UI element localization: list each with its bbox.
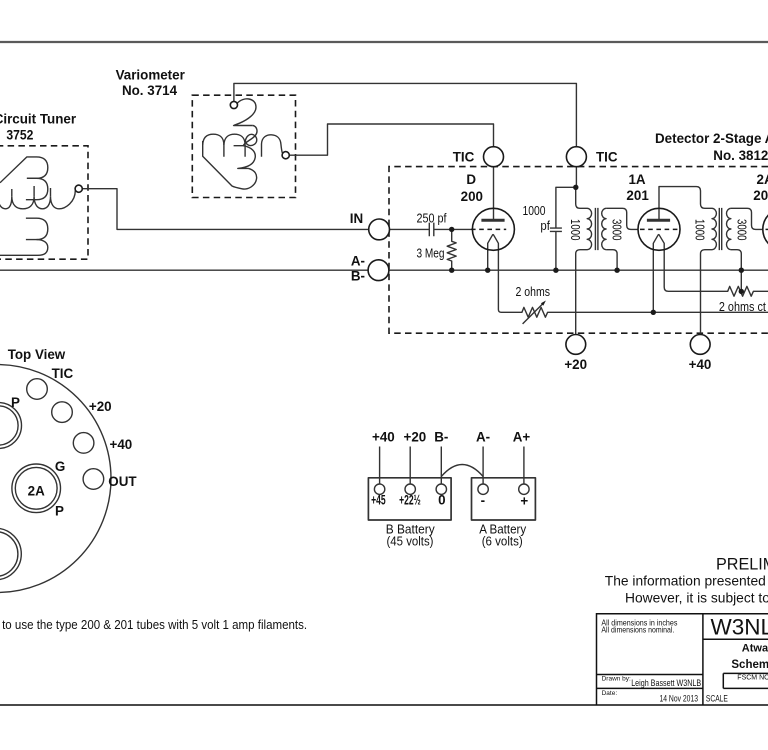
svg-text:+: +: [520, 494, 528, 509]
svg-text:Drawn by:: Drawn by:: [602, 676, 631, 683]
svg-text:pf: pf: [540, 218, 550, 233]
svg-text:201: 201: [626, 188, 649, 203]
svg-text:1000: 1000: [523, 203, 546, 218]
svg-text:+20: +20: [404, 429, 427, 444]
svg-text:A-: A-: [351, 253, 365, 268]
svg-text:2 ohms ct: 2 ohms ct: [719, 299, 766, 314]
svg-text:A-: A-: [476, 429, 490, 444]
svg-text:P: P: [55, 504, 64, 519]
svg-text:200: 200: [461, 189, 483, 204]
svg-text:TIC: TIC: [596, 149, 618, 164]
svg-text:1000: 1000: [568, 219, 583, 241]
svg-text:All dimensions nominal.: All dimensions nominal.: [601, 625, 674, 635]
svg-text:+40: +40: [110, 437, 133, 452]
svg-text:B-: B-: [351, 268, 365, 283]
svg-text:Schematic: Schematic: [731, 659, 768, 671]
svg-text:Leigh Bassett W3NLB: Leigh Bassett W3NLB: [631, 678, 701, 689]
svg-text:2 ohms: 2 ohms: [516, 284, 551, 299]
svg-text:W3NLB: W3NLB: [711, 614, 768, 639]
svg-text:The information presented here: The information presented here is believ…: [605, 573, 768, 588]
svg-text:3000: 3000: [609, 219, 624, 241]
svg-text:201: 201: [753, 188, 768, 203]
svg-text:2A: 2A: [757, 172, 768, 187]
svg-text:+40: +40: [689, 357, 712, 372]
svg-text:0: 0: [438, 493, 445, 508]
svg-text:+20: +20: [89, 399, 112, 414]
svg-text:+22½: +22½: [399, 493, 421, 508]
svg-text:IN: IN: [350, 211, 363, 226]
svg-text:PRELIMINARY: PRELIMINARY: [716, 556, 768, 574]
svg-text:TIC: TIC: [453, 149, 475, 164]
svg-text:+45: +45: [371, 493, 386, 508]
svg-text:Circuit Tuner: Circuit Tuner: [0, 111, 77, 126]
svg-text:250 pf: 250 pf: [417, 210, 447, 225]
svg-text:No. 38120: No. 38120: [713, 148, 768, 163]
svg-text:3000: 3000: [734, 219, 749, 241]
svg-text:3 Meg: 3 Meg: [417, 246, 445, 261]
svg-text:However, it is subject to chan: However, it is subject to change without: [625, 590, 768, 605]
svg-text:A+: A+: [513, 429, 531, 444]
svg-text:-: -: [481, 493, 485, 508]
svg-text:OUT: OUT: [108, 474, 137, 489]
svg-text:D: D: [466, 172, 476, 187]
svg-text:1000: 1000: [693, 219, 708, 241]
svg-text:Date:: Date:: [602, 690, 618, 697]
svg-text:No. 3714: No. 3714: [122, 83, 178, 98]
svg-text:Detector 2-Stage Amplifier: Detector 2-Stage Amplifier: [655, 131, 768, 146]
svg-text:Atwater Kent: Atwater Kent: [742, 643, 768, 655]
svg-text:TIC: TIC: [52, 366, 74, 381]
svg-text:Variometer: Variometer: [116, 68, 186, 83]
svg-text:Top View: Top View: [8, 347, 66, 362]
svg-text:P: P: [11, 395, 20, 410]
svg-text:SCALE: SCALE: [706, 694, 728, 704]
svg-text:1A: 1A: [628, 172, 645, 187]
svg-text:G: G: [55, 459, 65, 474]
svg-text:2A: 2A: [28, 484, 45, 499]
svg-text:+20: +20: [564, 357, 587, 372]
svg-text:3752: 3752: [6, 127, 33, 142]
svg-text:14 Nov 2013: 14 Nov 2013: [660, 693, 699, 704]
svg-text:B-: B-: [434, 429, 448, 444]
svg-text:+40: +40: [372, 429, 395, 444]
svg-text:(45 volts): (45 volts): [387, 533, 434, 548]
svg-text:(6 volts): (6 volts): [482, 533, 523, 548]
svg-text:FSCM NO.: FSCM NO.: [737, 675, 768, 682]
svg-text:to use the type 200 & 201 tube: to use the type 200 & 201 tubes with 5 v…: [2, 617, 307, 632]
